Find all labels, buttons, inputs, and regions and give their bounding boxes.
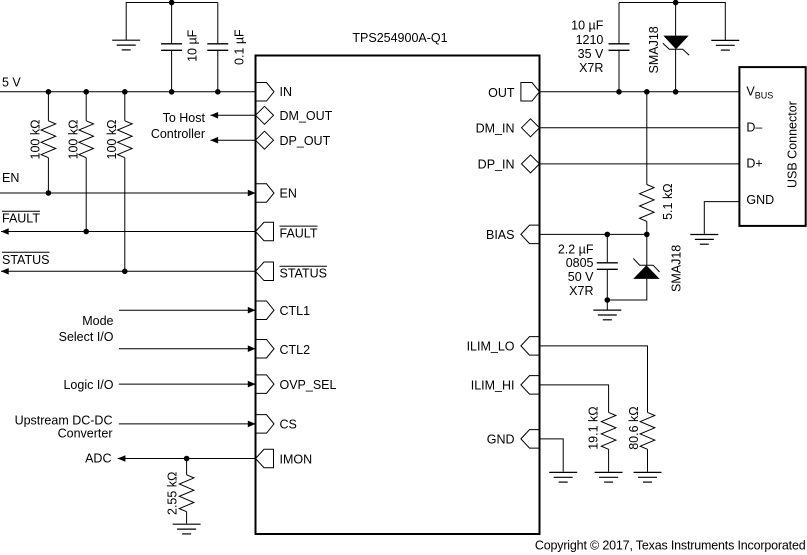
svg-text:EN: EN (280, 187, 297, 201)
svg-text:DP_OUT: DP_OUT (280, 134, 331, 148)
pin GND (521, 430, 540, 449)
ground (R7) (634, 472, 662, 482)
wire OVP_SEL line (119, 383, 256, 385)
svg-text:GND: GND (487, 433, 515, 447)
ground (USB) (690, 235, 718, 245)
capacitor C3 10uF 1210 (609, 3, 630, 92)
junction dot C4/D2 bottom node (605, 297, 611, 303)
wire BIAS line (540, 233, 647, 235)
ground (R4) (173, 524, 201, 534)
wire CS line (119, 423, 256, 425)
wire ILIM_HI to R6 (540, 385, 609, 413)
pin DP_IN (522, 155, 540, 173)
svg-text:2.2 µF: 2.2 µF (558, 242, 594, 256)
svg-text:DM_IN: DM_IN (476, 122, 515, 136)
label To Host Controller (151, 111, 206, 141)
arrow ADC (left) (118, 455, 126, 462)
svg-text:EN: EN (2, 171, 19, 185)
junction dot top rail / C1 (169, 0, 175, 5)
capacitor C4 2.2uF 0805 (with wires) (597, 234, 618, 300)
svg-text:GND: GND (746, 193, 774, 207)
resistor R3 100k (with wires) (118, 92, 133, 271)
wire CTL2 line (119, 348, 256, 350)
junction dot 5V/R3 (122, 89, 128, 95)
svg-text:FAULT: FAULT (2, 212, 40, 226)
pin CTL2 (256, 339, 275, 358)
svg-text:OUT: OUT (488, 86, 515, 100)
svg-text:ADC: ADC (85, 452, 111, 466)
svg-text:10 µF: 10 µF (185, 29, 199, 62)
pin FAULT label with overline (280, 226, 318, 240)
wire top-right ground rail (619, 3, 725, 41)
pin DM_OUT (256, 106, 274, 124)
wire DM_OUT to host (210, 114, 255, 116)
svg-text:19.1 kΩ: 19.1 kΩ (586, 406, 600, 449)
node STATUS label with overline (2, 252, 50, 266)
ground (GND pin) (549, 472, 577, 482)
ground (top-left) (112, 40, 140, 50)
svg-text:Copyright © 2017, Texas Instru: Copyright © 2017, Texas Instruments Inco… (535, 539, 806, 553)
svg-text:CTL1: CTL1 (280, 304, 311, 318)
wire CTL1 line (119, 309, 256, 311)
wire GND pin to ground (540, 439, 564, 472)
svg-text:10 µF: 10 µF (571, 19, 604, 33)
svg-text:5 V: 5 V (2, 76, 21, 90)
arrow CTL2 into pin (248, 345, 256, 352)
resistor R1 100k (with wires) (41, 92, 56, 193)
svg-text:TPS254900A-Q1: TPS254900A-Q1 (352, 31, 447, 45)
svg-text:Controller: Controller (151, 127, 205, 141)
svg-text:100 kΩ: 100 kΩ (29, 120, 43, 160)
junction dot VBUS/C3 (616, 89, 622, 95)
ground (R6) (595, 472, 623, 482)
svg-text:100 kΩ: 100 kΩ (67, 120, 81, 160)
pin DP_OUT (256, 131, 274, 149)
svg-text:OVP_SEL: OVP_SEL (280, 378, 337, 392)
wire FAULT line (1, 231, 256, 233)
svg-text:1210: 1210 (576, 33, 604, 47)
resistor R5 5.1k (with wires) (640, 92, 655, 235)
svg-text:D–: D– (746, 120, 762, 134)
label Mode Select I/O (59, 314, 114, 344)
junction dot VBUS/D1 (673, 89, 679, 95)
junction dot BIAS/C4 (605, 232, 611, 238)
svg-text:STATUS: STATUS (2, 253, 49, 267)
svg-text:DP_IN: DP_IN (478, 158, 515, 172)
junction dot FAULT/R2 (83, 229, 89, 235)
svg-text:0.1 µF: 0.1 µF (233, 29, 247, 65)
svg-text:X7R: X7R (569, 284, 593, 298)
svg-text:IN: IN (280, 85, 293, 99)
pin EN (256, 184, 275, 203)
svg-text:ILIM_LO: ILIM_LO (467, 340, 515, 354)
svg-text:USB Connector: USB Connector (786, 101, 800, 188)
USB connector J1 box (739, 67, 805, 226)
junction dot BIAS/R5/D2 (644, 232, 650, 238)
capacitor C4 value labels 2.2uF 0805 50V X7R (558, 242, 594, 297)
wire C4 bottom to ground (606, 300, 608, 310)
svg-text:D+: D+ (746, 157, 762, 171)
resistor R7 80.6k (640, 412, 655, 471)
junction dot 5V/C1 (169, 89, 175, 95)
node FAULT label with overline (2, 211, 40, 226)
junction dot 5V/R1 (46, 89, 52, 95)
arrow CTL1 into pin (248, 307, 256, 314)
pin STATUS label with overline (280, 266, 328, 280)
svg-text:Logic I/O: Logic I/O (63, 378, 113, 392)
svg-text:IMON: IMON (280, 453, 313, 467)
svg-text:DM_OUT: DM_OUT (280, 109, 333, 123)
resistor R2 100k (with wires) (79, 92, 94, 232)
wire USB GND to ground (704, 202, 739, 234)
arrow STATUS (left) (1, 268, 9, 275)
arrow OVP_SEL into pin (248, 381, 256, 388)
svg-text:ILIM_HI: ILIM_HI (471, 379, 515, 393)
wire D- line (540, 127, 740, 129)
svg-text:80.6 kΩ: 80.6 kΩ (627, 406, 641, 449)
arrow DM_OUT (left) (210, 112, 218, 119)
arrow CS into pin (248, 421, 256, 428)
wire D+ line (540, 163, 740, 165)
pin OUT (521, 83, 540, 102)
svg-text:100 kΩ: 100 kΩ (105, 120, 119, 160)
svg-text:50 V: 50 V (568, 270, 594, 284)
capacitor C3 value labels 10uF 1210 35V X7R (571, 19, 604, 75)
junction dot EN/R1 (46, 190, 52, 196)
svg-text:X7R: X7R (579, 61, 603, 75)
pin CS (256, 415, 275, 434)
junction dot STATUS/R3 (122, 269, 128, 275)
svg-text:BIAS: BIAS (486, 228, 515, 242)
pin IMON (256, 449, 274, 468)
pin BIAS (521, 225, 540, 244)
junction dot 5V/C2 (215, 89, 221, 95)
ground (C4/D2) (593, 310, 621, 320)
diode D2 SMAJ18 TVS on BIAS (607, 234, 659, 300)
junction dot top rail / D1 (673, 0, 679, 5)
wire OUT/VBUS rail (540, 91, 740, 93)
svg-text:CS: CS (280, 418, 297, 432)
wire IMON line (118, 458, 256, 460)
wire DP_OUT to host (210, 139, 255, 141)
pin CTL1 (256, 301, 275, 320)
svg-text:35 V: 35 V (578, 47, 604, 61)
pin OVP_SEL (256, 375, 275, 394)
pin ILIM_LO (521, 337, 540, 356)
wire 5V rail (0, 91, 256, 93)
wire EN line (0, 192, 256, 194)
junction dot VBUS/R5 (644, 89, 650, 95)
svg-text:SMAJ18: SMAJ18 (670, 245, 684, 292)
junction dot IMON/R4 (184, 456, 190, 462)
junction dot 5V/R2 (83, 89, 89, 95)
pin STATUS (256, 262, 274, 281)
arrow EN into pin (248, 190, 256, 197)
pin DM_IN (522, 119, 540, 137)
resistor R6 19.1k (601, 412, 616, 471)
svg-text:SMAJ18: SMAJ18 (647, 26, 661, 73)
pin FAULT (256, 222, 274, 241)
svg-text:FAULT: FAULT (280, 226, 318, 240)
capacitor C2 0.1uF (207, 3, 228, 92)
arrow DP_OUT (left) (210, 137, 218, 144)
svg-text:STATUS: STATUS (280, 266, 327, 280)
wire STATUS line (1, 270, 256, 272)
svg-text:Converter: Converter (58, 427, 113, 441)
resistor R4 2.55k (with wires) (179, 459, 194, 524)
svg-text:Select I/O: Select I/O (59, 330, 114, 344)
wire ILIM_LO to R7 (540, 346, 648, 413)
svg-text:2.55 kΩ: 2.55 kΩ (166, 472, 180, 515)
svg-text:Upstream DC-DC: Upstream DC-DC (15, 414, 113, 428)
label Upstream DC-DC Converter (15, 414, 113, 441)
pin ILIM_HI (521, 376, 540, 395)
capacitor C1 10uF (161, 3, 182, 92)
ground (top-right) (711, 40, 739, 50)
IC U1 TPS254900A-Q1 box (256, 56, 540, 535)
pin IN (256, 83, 275, 102)
svg-text:CTL2: CTL2 (280, 343, 311, 357)
svg-text:5.1 kΩ: 5.1 kΩ (661, 183, 675, 219)
svg-text:To Host: To Host (163, 111, 206, 125)
arrow FAULT (left) (1, 228, 9, 235)
wire top-left ground rail (126, 3, 218, 41)
svg-text:Mode: Mode (82, 314, 113, 328)
svg-text:0805: 0805 (566, 256, 594, 270)
diode D1 SMAJ18 TVS (663, 3, 689, 92)
